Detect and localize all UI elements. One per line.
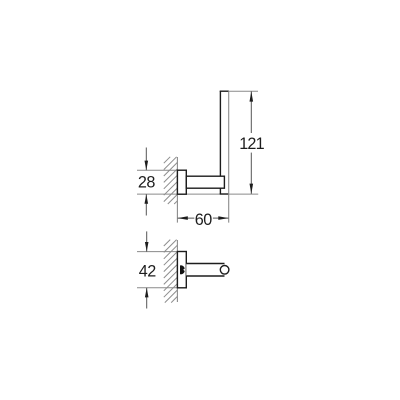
spindle rod — [186, 264, 224, 277]
extension line bottom of dim 28 + dim 121 (continuous under plate, arm and post) — [137, 193, 258, 195]
dim 28: lower arrow leader — [145, 194, 147, 215]
dim 28: lower arrowhead (points up) — [145, 194, 149, 204]
dim 60: dimension line segments — [178, 217, 195, 219]
wall hatching (top view) — [164, 157, 178, 204]
svg-text:28: 28 — [138, 174, 156, 192]
extension line top of dim 42 — [137, 251, 177, 253]
svg-text:42: 42 — [139, 263, 157, 281]
dim 42: lower arrow leader — [146, 288, 148, 309]
dim 121: dimension line (gap for label) — [250, 91, 252, 133]
dim 60: left arrowhead (points left) — [178, 216, 188, 220]
dim 60: right arrowhead (points right) — [218, 216, 228, 220]
rod end circle — [220, 266, 229, 275]
wall line (bottom view) — [176, 240, 178, 302]
vertical post of holder (121 mm bar) — [220, 91, 229, 194]
dim 121: top extension line — [229, 90, 258, 92]
dim 28: upper arrowhead (points down) — [145, 161, 149, 171]
dim 42: upper arrowhead (points down) — [145, 242, 149, 252]
wall line (top view) doubles as left extension line of dim 60 — [176, 157, 178, 223]
dim 121: bottom arrowhead (points down) — [250, 184, 254, 194]
right edge of post = extension line of dims 121 / 60 — [228, 91, 230, 222]
dim 121: top arrowhead (points up) — [250, 91, 254, 101]
svg-text:121: 121 — [239, 135, 264, 153]
dim 42: lower arrowhead (points up) — [145, 288, 149, 298]
screw fixing detail on plate — [180, 265, 185, 274]
wall plate (bottom view) — [177, 252, 186, 288]
wall hatching (bottom view) — [164, 240, 178, 303]
extension line bottom of dim 42 — [137, 287, 177, 289]
dim 28: upper arrow leader — [145, 148, 147, 171]
horizontal arm of holder — [186, 176, 224, 188]
wall plate (top view) — [177, 170, 186, 194]
extension line top of dim 28 — [137, 169, 177, 171]
dim 42: upper arrow leader — [146, 231, 148, 251]
svg-text:60: 60 — [195, 211, 213, 229]
